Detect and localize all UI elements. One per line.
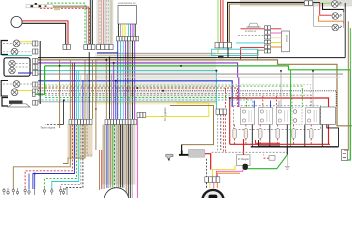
wire red feed bus [230,98,329,144]
wire black stub below X5 [227,48,229,58]
bracket G1 [1,41,8,55]
wire light green [217,0,219,42]
wire red dashed drop B [225,115,227,154]
lamp G3a [13,81,20,88]
wire red drop to regulator [243,139,245,155]
wire tan drop left [59,60,61,128]
wire grey coil taps [280,71,282,107]
wire magenta magneto [216,170,242,177]
fuse FU3 [276,129,280,139]
node shaded band top right [240,0,352,7]
wire grey dashed starter to ground riser [212,151,288,153]
wire black coil grounds [252,125,322,147]
wire blue below X2 [97,52,118,54]
terminal T-bar [179,154,188,156]
node pale yellow band [95,101,216,104]
svg-text:IC Regler: IC Regler [238,157,249,161]
starter relay SR [188,149,205,157]
wire orange [271,46,282,48]
wire brown drop from stack [257,50,264,60]
wire magenta [271,32,282,34]
connector stack X7 (flasher) [264,26,270,53]
wire cyan bus [38,71,216,109]
wire black horn return [22,23,65,44]
wire grey dashed bus A [38,94,292,107]
wire pale [271,37,282,39]
wire grey dashed L [61,125,81,191]
wire grey top-left run [53,6,87,44]
wire grey bus low [38,101,216,103]
indicator bar [9,101,23,104]
wires below switch box [118,24,135,37]
connector X12 magneto [205,177,220,183]
wire red dashed to resistor [264,157,270,159]
wire black dashed drop [220,115,222,151]
wire dark red dashed [106,0,108,44]
node tan band below left connector row [68,124,93,157]
wire red fuse drops [235,125,312,145]
wire grey row [97,53,258,55]
wire tan L [13,125,70,191]
wire green to ground [248,155,288,169]
wire pale bus [95,76,340,78]
wire cyan G1 out [2,54,32,56]
wire black ground riser [286,147,288,155]
connector X6 tail harness [305,1,313,6]
wire tan to tail harness [230,4,305,42]
wire light green stub below X5 [217,48,219,54]
wire tan drop mid [92,60,94,119]
wire black dashed below relay [206,159,208,177]
wire black riser to tail harness [228,2,304,42]
wire orange magneto [217,173,240,176]
battery B1 [342,150,348,161]
coil T2 [258,108,272,125]
svg-text:xxxxxx: xxxxxx [285,35,288,43]
wire grey bulbs return [343,9,345,28]
wire red dashed L [25,125,72,191]
wire cyan L [52,125,79,191]
coil cell dashed [292,108,302,125]
wire red top right runs [256,140,281,143]
wire dashes G2 [16,64,33,68]
wire green dashed bus [45,86,302,107]
wire cyan into stack [236,42,264,44]
wire red riser left [229,98,231,144]
lamp base [8,104,30,107]
connector X3 [97,45,114,50]
connector G4c [33,92,38,105]
regulator IC box [237,155,251,166]
wire green right edge upper [349,28,351,69]
box right of coils [321,107,336,125]
wire violet bus [38,63,239,107]
wire light green to tail bulb 1 [320,2,331,4]
wire black low bus [251,146,339,148]
wire red jog to bulb 2 [320,3,332,15]
connector X8 [69,120,92,125]
wire green dashed L [44,125,76,191]
lamp G1b [11,48,18,55]
wire yellow magneto [212,166,235,177]
wire grey to bulb 3 [314,3,332,26]
wire red [220,0,222,42]
connector X9 [105,120,137,125]
wire green gauge feed [34,66,45,94]
wire grey dashed drop [217,115,219,153]
wire tan [101,0,103,44]
wire blue G2 [18,72,33,74]
wire black bar bulb feed [323,3,344,12]
wire green dashed [108,0,110,44]
magneto M2 [202,190,223,211]
tacho G3 [1,81,8,97]
wire black dotted bus [38,91,336,107]
wires below connector X4 [118,41,135,119]
wire green dashed top-left run [47,3,85,44]
lamp L2 brake [332,13,342,20]
lamp L1 tail [332,1,342,8]
wire black gauge trunk [39,41,41,104]
harness verticals to left connector row [70,52,89,119]
wire red horn rear feed [241,28,282,30]
fuse FU5 [309,129,313,139]
wire pale tan row [97,54,258,56]
wire blue bus [38,81,232,107]
wire grey dashed into stack [238,35,264,37]
coil T3 [276,108,290,125]
lamp G2b [9,67,15,73]
resistor R1 [269,156,275,161]
fuse FU4 [292,129,296,139]
wire yellow temp [146,103,209,117]
relay U3 flasher [282,31,290,52]
svg-text:xxxxxxxxxxx xx: xxxxxxxxxxx xx [118,2,136,5]
fuse FU1 [244,129,248,139]
wire black tacho signal [59,100,63,124]
harness bundle top-centre (x98-112) [98,0,112,44]
wires into magneto [207,182,218,188]
wire red dashed drop A [223,115,225,154]
wire black riser right [327,125,339,147]
connector X11 centre [216,109,227,114]
node pickup under loop [218,56,224,58]
wire brown bar bulb feed [319,16,344,24]
harness verticals top-mid-right [218,0,304,42]
wire green drop through coils [290,70,292,147]
ignition coils block [234,106,321,130]
svg-text:Tacho signal: Tacho signal [40,126,55,130]
wire green dashed bus B [45,98,247,107]
wire magenta long [136,118,138,198]
wire pink dashed top-left run [40,8,90,44]
wire tan [111,0,113,44]
connector X4 under switch [117,37,139,41]
lamp G1a [13,40,20,47]
connector G1c [33,41,38,54]
horn rear HR [249,23,259,27]
wire yellow G1 [20,41,32,43]
coil stub wires [254,96,279,108]
gauge G4 [2,98,8,107]
connector X2 [84,45,95,50]
wire black bus [38,57,345,59]
ground symbol GND1 [285,166,290,169]
node grey band centre bottom [102,125,136,185]
wire black pair to speedo connector [91,0,93,44]
wire brown feed to starter relay [170,106,214,145]
fuse strip F1 top left [26,5,53,8]
wire cyan dashed bus [38,100,253,112]
fuse FU0 [233,129,237,139]
wire red from relay [205,154,211,170]
lamp G3b [11,89,18,96]
wire grey dashed bus B [38,95,311,107]
node shaded band behind central bus [95,52,216,104]
wire red low bus [230,143,330,145]
node tan stub [54,8,60,10]
rectifier block [243,164,248,170]
wire red dashed [99,0,101,44]
switch row bottom left [3,188,67,195]
junction dots on bus [105,57,314,99]
mouse cursor [166,154,173,160]
wire tan L2 [63,125,85,164]
connector X5 [215,43,232,48]
connector G2c [33,59,38,76]
lamp L3 signal [332,24,342,31]
horn H1 [11,16,22,27]
wire yellow G3 [18,89,33,91]
node shaded band behind top-centre harness [96,0,114,44]
wire red dashed bus [38,88,237,107]
wire black drop to terminal [181,145,183,154]
wire tan top-left run [53,7,89,44]
wire red horn feed [22,21,68,44]
coil T4 [306,108,320,125]
wire red drop from stack [241,48,265,60]
instrument M1 [104,188,129,213]
svg-text:Tempgeber: Tempgeber [163,107,167,121]
coil T1 [241,108,255,125]
wires below right row to instrument [100,125,133,199]
connector G3c [33,82,38,94]
wire green bus [45,66,351,160]
wire grey bus [38,73,343,75]
wire black right edge [344,3,346,58]
wire cyan loop [212,49,258,55]
wire grey L2 [87,125,92,156]
wire dashes G1 [3,43,32,51]
wire grey [97,0,99,44]
wire yellow [271,42,282,44]
wire blue pair [29,174,35,190]
wire dashes G3 [3,83,32,85]
wire grey [109,0,111,44]
wire black top right runs [259,140,281,146]
lamp G2a [9,60,15,66]
connector X10 temp [137,113,146,118]
wire grey [104,0,106,44]
wire blue L [33,125,75,190]
wire red [222,0,224,42]
wire brown bus [38,60,352,126]
fuse FU2 [258,129,262,139]
wire black to junction [313,2,320,4]
wire tan right edge [345,21,349,150]
wire red [102,0,104,44]
speedometer G2 [4,58,30,76]
wire black dashed L [65,125,83,191]
svg-text:xx xxxx xx: xx xxxx xx [245,30,257,33]
wire white dashed bus [38,84,310,107]
wire yellow bus stub [177,102,209,104]
wire red dashed drop to regulator [225,88,227,114]
wire brown drop band [95,60,97,150]
connector X1 (horn leads) [63,45,70,50]
harness verticals to right connector row [106,58,116,119]
